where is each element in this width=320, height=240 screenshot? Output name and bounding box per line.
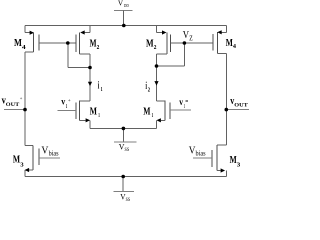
svg-text:2: 2 <box>97 44 100 51</box>
svg-text:v: v <box>179 98 183 108</box>
svg-text:DD: DD <box>124 3 130 8</box>
svg-text:Z: Z <box>189 35 193 43</box>
svg-text:1: 1 <box>101 87 103 93</box>
svg-text:3: 3 <box>237 162 241 169</box>
svg-text:M: M <box>90 107 98 118</box>
svg-text:1: 1 <box>66 104 68 110</box>
svg-text:OUT: OUT <box>6 102 20 108</box>
svg-text:SS: SS <box>126 197 131 202</box>
svg-text:2: 2 <box>148 87 150 93</box>
svg-text:+: + <box>20 96 23 102</box>
svg-text:1: 1 <box>184 104 185 110</box>
svg-text:M: M <box>143 107 151 118</box>
svg-text:bias: bias <box>49 149 59 157</box>
svg-text:bias: bias <box>196 149 206 157</box>
svg-text:3: 3 <box>20 161 23 168</box>
svg-text:2: 2 <box>154 44 157 51</box>
svg-text:1: 1 <box>98 112 100 119</box>
svg-text:+: + <box>68 98 71 104</box>
svg-text:OUT: OUT <box>234 103 248 109</box>
svg-text:1: 1 <box>152 112 154 119</box>
svg-text:V: V <box>118 0 124 8</box>
svg-text:i: i <box>98 81 100 92</box>
svg-text:SS: SS <box>125 147 130 153</box>
